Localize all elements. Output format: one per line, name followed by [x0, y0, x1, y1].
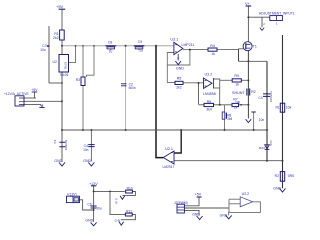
svg-text:LM2917: LM2917	[163, 165, 175, 169]
svg-text:R6: R6	[207, 100, 212, 104]
svg-text:V-: V-	[177, 57, 180, 61]
svg-text:GND: GND	[85, 218, 93, 222]
svg-text:+5V: +5V	[32, 88, 39, 92]
svg-text:LMP211: LMP211	[182, 43, 195, 47]
svg-text:U3.1: U3.1	[170, 38, 178, 42]
svg-text:GND: GND	[220, 213, 228, 217]
svg-text:GND: GND	[273, 187, 281, 191]
svg-text:78L05: 78L05	[59, 73, 68, 77]
svg-text:10u: 10u	[40, 48, 46, 52]
svg-text:100n/63: 100n/63	[64, 139, 68, 150]
svg-text:C4: C4	[258, 96, 262, 100]
svg-text:1k: 1k	[235, 83, 239, 87]
svg-text:C9: C9	[138, 40, 143, 44]
svg-text:1k: 1k	[234, 106, 238, 110]
svg-text:R9: R9	[234, 74, 239, 78]
svg-text:GND: GND	[176, 66, 184, 70]
svg-text:A3: A3	[40, 104, 44, 108]
svg-text:10n: 10n	[83, 148, 89, 152]
svg-text:1k: 1k	[211, 52, 215, 56]
svg-text:+12V: +12V	[89, 182, 98, 186]
svg-text:D-B: D-B	[115, 219, 120, 223]
svg-text:GND: GND	[192, 213, 200, 217]
svg-text:U2.2: U2.2	[242, 192, 250, 196]
svg-text:2k2: 2k2	[53, 36, 59, 40]
svg-text:1u: 1u	[109, 49, 113, 53]
svg-text:3k4: 3k4	[206, 107, 212, 111]
svg-text:ADJUSTMENT_INPUT1: ADJUSTMENT_INPUT1	[259, 12, 295, 16]
svg-text:R5: R5	[177, 76, 182, 80]
svg-text:R2: R2	[251, 90, 256, 94]
svg-text:U2: U2	[53, 60, 57, 64]
svg-text:5V1: 5V1	[269, 140, 273, 146]
svg-text:V+: V+	[245, 1, 251, 6]
svg-text:78L05: 78L05	[64, 61, 68, 69]
svg-text:R3: R3	[76, 78, 80, 82]
svg-text:R11: R11	[126, 209, 132, 213]
svg-text:SHUNT: SHUNT	[232, 91, 245, 95]
svg-text:10n: 10n	[259, 118, 265, 122]
svg-text:R4: R4	[210, 44, 215, 48]
svg-text:+12V/A_ACTIVE: +12V/A_ACTIVE	[4, 92, 29, 96]
svg-text:C3: C3	[53, 139, 57, 143]
svg-text:GND: GND	[83, 159, 91, 163]
svg-text:10k: 10k	[286, 105, 292, 109]
svg-text:+(12V): +(12V)	[67, 192, 77, 196]
svg-text:T1: T1	[253, 45, 257, 49]
svg-text:2k2: 2k2	[176, 85, 182, 89]
svg-text:1u: 1u	[139, 49, 143, 53]
svg-text:J2(PWM): J2(PWM)	[174, 201, 188, 205]
svg-text:C6: C6	[87, 203, 91, 207]
svg-text:0R5: 0R5	[288, 174, 294, 178]
svg-text:600n: 600n	[129, 86, 136, 90]
svg-text:R1: R1	[275, 105, 279, 109]
svg-text:GND: GND	[54, 159, 62, 163]
svg-text:U2.1: U2.1	[165, 147, 173, 151]
svg-text:10u: 10u	[96, 206, 102, 210]
svg-text:R10: R10	[127, 187, 133, 191]
svg-text:100n/63: 100n/63	[269, 91, 273, 102]
svg-text:LM4558: LM4558	[203, 92, 216, 96]
svg-text:R2: R2	[275, 174, 279, 178]
svg-text:2k4: 2k4	[227, 117, 232, 121]
svg-text:R7: R7	[233, 97, 238, 101]
svg-text:+5V: +5V	[195, 193, 202, 197]
svg-text:BZX: BZX	[259, 146, 265, 150]
svg-text:U3.2: U3.2	[205, 72, 213, 76]
svg-text:B: B	[115, 200, 117, 204]
svg-text:C8: C8	[108, 40, 113, 44]
svg-text:+5V: +5V	[56, 4, 64, 9]
